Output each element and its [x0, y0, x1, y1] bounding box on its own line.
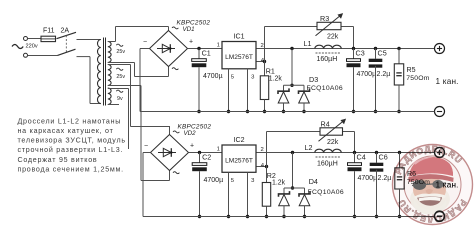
svg-text:R3: R3	[320, 14, 329, 23]
svg-text:25v: 25v	[116, 74, 125, 80]
svg-text:2.2µ: 2.2µ	[378, 175, 392, 182]
svg-text:R2: R2	[267, 172, 276, 180]
svg-text:C6: C6	[379, 153, 388, 162]
svg-text:+: +	[190, 143, 194, 150]
svg-text:IC1: IC1	[233, 33, 244, 41]
svg-text:C2: C2	[202, 153, 211, 162]
svg-text:2.2µ: 2.2µ	[377, 71, 391, 78]
svg-text:Содержат 95 витков: Содержат 95 витков	[18, 156, 98, 164]
svg-text:строчной развертки L1-L3.: строчной развертки L1-L3.	[18, 146, 124, 154]
svg-text:1: 1	[217, 43, 220, 49]
svg-text:4700µ: 4700µ	[357, 71, 377, 78]
svg-text:Дроссели L1-L2 намотаны: Дроссели L1-L2 намотаны	[18, 117, 122, 125]
svg-text:C1: C1	[202, 49, 211, 58]
svg-text:VD2: VD2	[184, 130, 197, 137]
svg-text:телевизора ЗУСЦТ, модуль: телевизора ЗУСЦТ, модуль	[18, 137, 126, 145]
svg-text:D3: D3	[309, 75, 318, 84]
svg-text:1 кан.: 1 кан.	[436, 77, 459, 86]
svg-text:R5: R5	[407, 66, 416, 74]
svg-text:1 кан: 1 кан	[436, 181, 457, 190]
svg-text:D4: D4	[309, 177, 318, 186]
svg-text:160µH: 160µH	[317, 161, 338, 168]
svg-text:F11: F11	[43, 28, 55, 35]
svg-text:220v: 220v	[26, 44, 38, 50]
svg-text:−: −	[143, 39, 147, 46]
svg-text:провода сечением 1,25мм.: провода сечением 1,25мм.	[18, 165, 124, 173]
svg-text:1.2k: 1.2k	[269, 76, 283, 83]
svg-text:4700µ: 4700µ	[204, 177, 224, 184]
svg-text:IC2: IC2	[233, 136, 244, 144]
svg-text:C3: C3	[356, 49, 365, 58]
svg-text:9v: 9v	[117, 96, 123, 102]
svg-text:L2: L2	[305, 143, 313, 152]
svg-text:C4: C4	[357, 153, 366, 162]
svg-text:1.2k: 1.2k	[272, 180, 286, 187]
svg-text:LM2576T: LM2576T	[225, 157, 253, 164]
svg-text:на каркасах катушек, от: на каркасах катушек, от	[18, 127, 114, 135]
svg-text:750Om: 750Om	[406, 75, 429, 82]
svg-text:C5: C5	[378, 49, 387, 58]
svg-text:+: +	[189, 39, 193, 46]
svg-text:22k: 22k	[327, 34, 339, 41]
svg-text:25v: 25v	[116, 49, 125, 55]
svg-text:−: −	[144, 143, 148, 150]
svg-text:4700µ: 4700µ	[358, 175, 378, 182]
svg-text:VD1: VD1	[183, 26, 195, 33]
svg-text:2: 2	[261, 43, 264, 49]
svg-text:R4: R4	[321, 119, 330, 128]
svg-text:FCQ10A06: FCQ10A06	[308, 189, 344, 196]
svg-text:LM2576T: LM2576T	[225, 54, 253, 61]
svg-text:1: 1	[217, 147, 220, 153]
svg-text:R1: R1	[266, 67, 275, 75]
svg-text:160µH: 160µH	[317, 56, 338, 63]
svg-text:2: 2	[261, 147, 264, 153]
svg-text:4700µ: 4700µ	[203, 73, 223, 80]
svg-text:22k: 22k	[327, 139, 339, 146]
svg-text:FCQ10A06: FCQ10A06	[307, 85, 343, 92]
svg-text:L1: L1	[304, 39, 312, 48]
svg-text:2A: 2A	[61, 28, 70, 35]
